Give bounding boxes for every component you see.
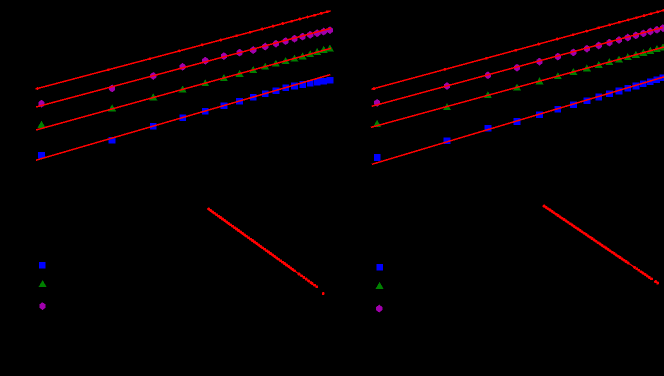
left panel series W1 (blue squares) data points: [38, 77, 333, 159]
right panel series W1 (blue squares) data points: [374, 75, 664, 161]
left panel legend triangle marker: [39, 280, 47, 287]
left panel series W3 (magenta diamonds) data points: [38, 26, 333, 107]
right panel series W3 (magenta diamonds) data points: [374, 24, 664, 107]
right panel series W2 (green triangles) data points: [373, 43, 664, 127]
right panel series D0 (red dots) data points: [373, 9, 664, 90]
left panel series W2 (green triangles) fit line: [36, 48, 331, 130]
right panel inset red line with data dots: [543, 205, 660, 285]
left panel series W1 (blue squares) fit line: [36, 75, 330, 161]
left panel series D0 (red dots) fit line: [36, 11, 331, 89]
left panel series W3 (magenta diamonds) fit line: [36, 28, 331, 107]
right panel series W2 (green triangles) fit line: [371, 47, 664, 127]
right panel series W3 (magenta diamonds) fit line: [372, 28, 663, 107]
right panel legend diamond marker: [376, 305, 382, 313]
left panel series W2 (green triangles) data points: [38, 45, 334, 128]
left panel legend square marker: [39, 262, 46, 269]
left panel inset red line with data dots: [207, 208, 324, 295]
right panel series D0 (red dots) fit line: [372, 10, 664, 89]
right panel series W1 (blue squares) fit line: [372, 77, 664, 164]
left panel legend diamond marker: [39, 302, 45, 310]
right panel legend square marker: [376, 264, 383, 271]
left panel series D0 (red dots) data points: [36, 10, 329, 90]
right panel legend triangle marker: [376, 282, 384, 289]
